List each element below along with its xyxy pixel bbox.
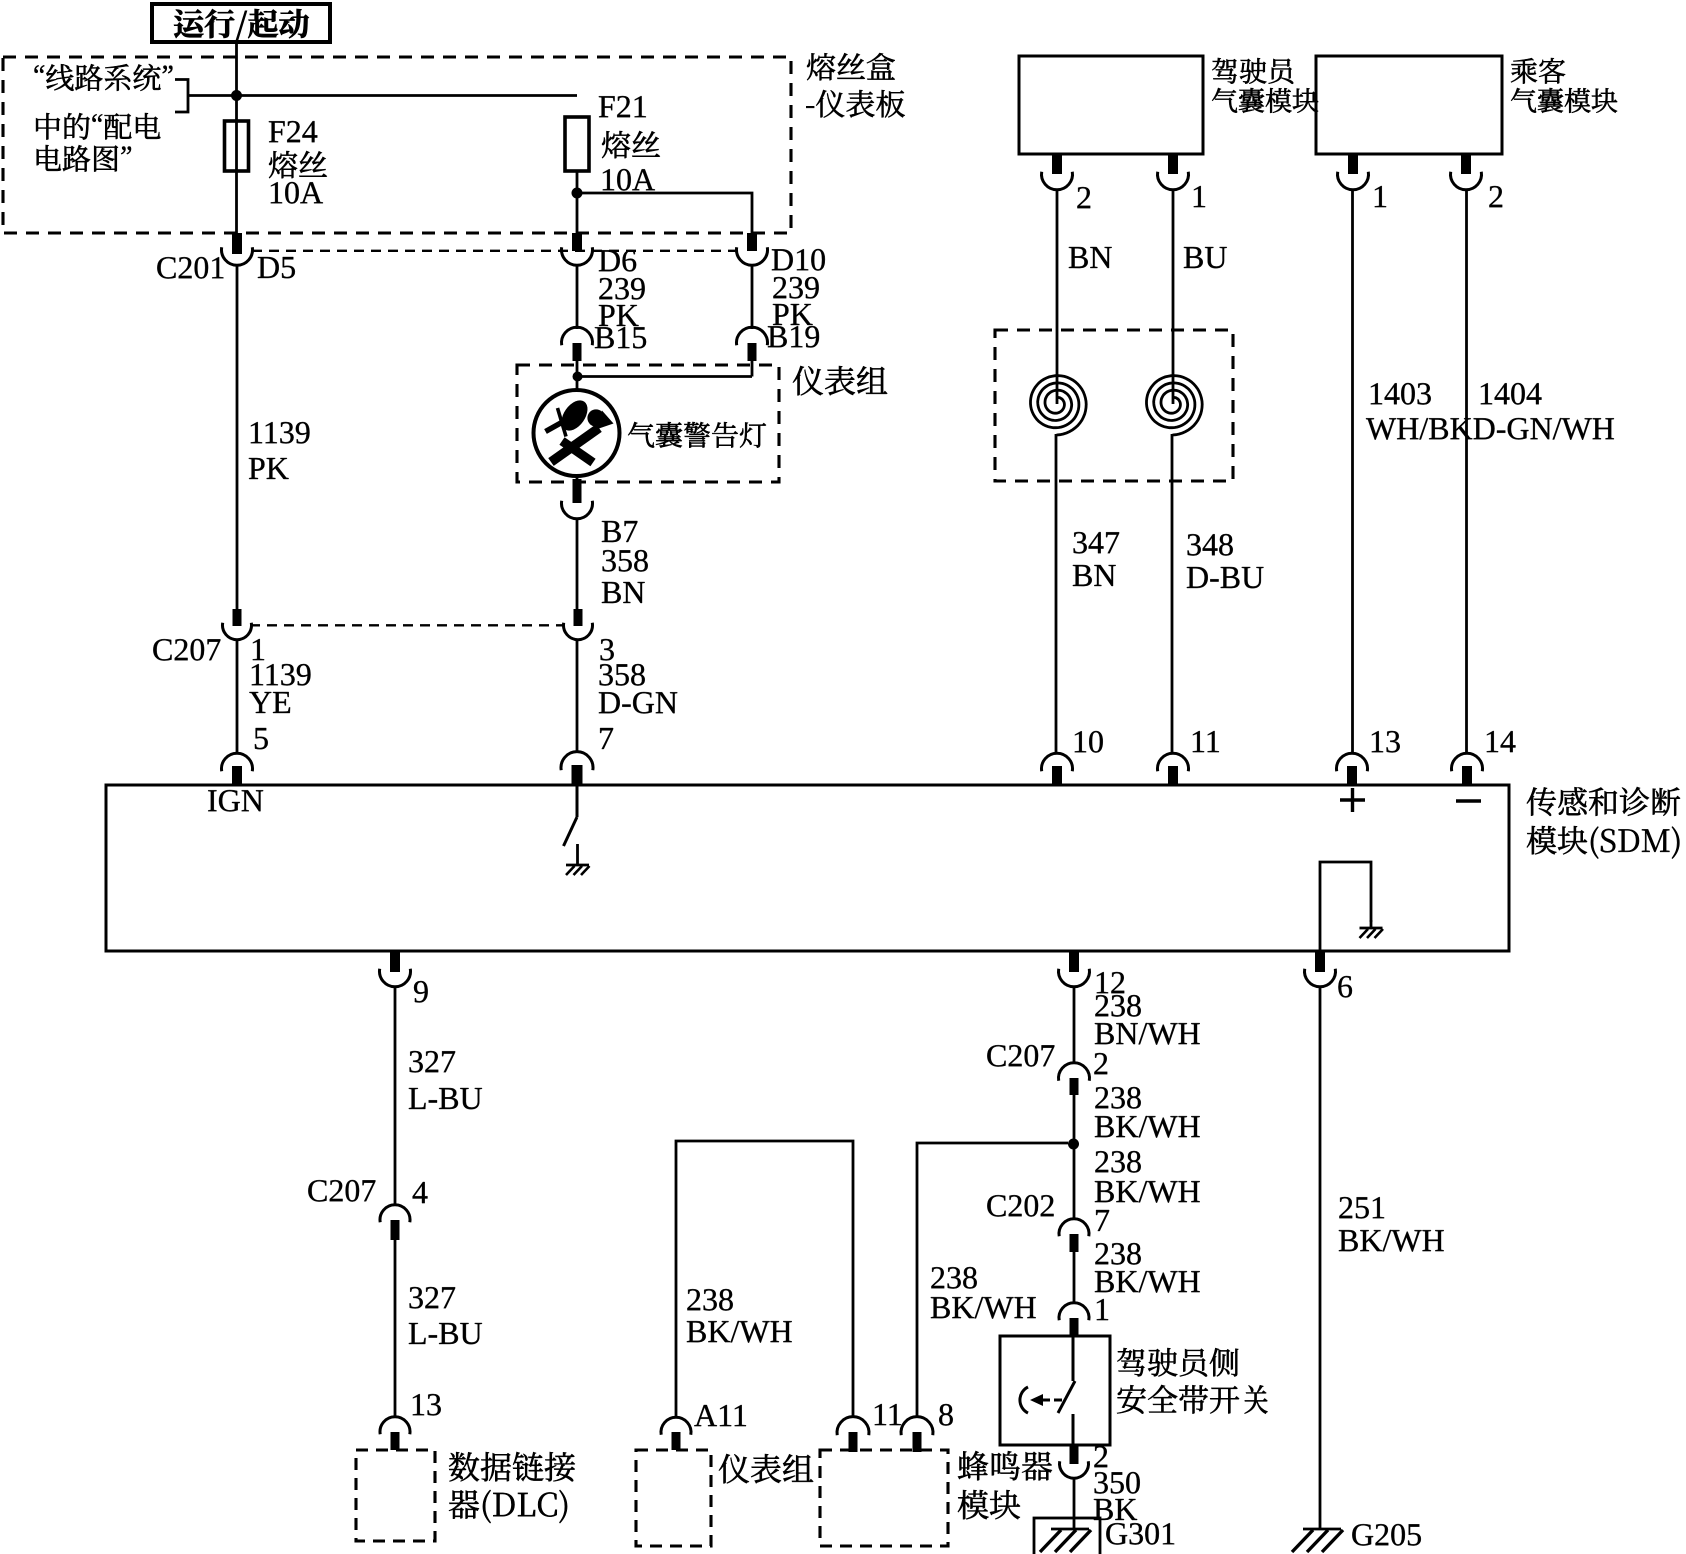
label 347 <box>1074 532 1120 554</box>
wire C207-1 to SDM pin5 <box>236 640 239 755</box>
label 358 (C207-3) <box>600 664 645 686</box>
connector pin B19 terminal <box>737 327 768 345</box>
connector pin D10 terminal <box>747 233 757 251</box>
SDM internal ground loop <box>1320 862 1371 951</box>
driver module pin 2 terminal <box>1052 155 1062 174</box>
label BK <box>1094 1499 1137 1520</box>
passenger module pin 2 terminal <box>1461 155 1471 174</box>
clockspring coil left <box>1031 376 1087 435</box>
ground G205 symbol <box>1303 1528 1341 1531</box>
passenger airbag module box <box>1316 56 1502 154</box>
label 13 (DLC pin) <box>413 1394 441 1416</box>
label 238 (above switch) <box>1095 1243 1140 1265</box>
wire C207-3 to SDM pin7 <box>576 640 579 753</box>
wire C202-7 to switch pin1 <box>1073 1252 1076 1303</box>
node junction dot belt/buzzer <box>1068 1139 1079 1150</box>
label 乘客 <box>1511 58 1565 84</box>
wire buzzer 8 branch <box>917 1143 1068 1417</box>
SDM internal ground (switch) <box>576 844 579 865</box>
SDM internal lamp-driver switch <box>576 785 579 817</box>
power feed box 运行/起动 (Run/Start) <box>152 4 330 42</box>
label 1 (passenger pin) <box>1375 186 1386 207</box>
wire cluster A11 to buzzer 11 <box>676 1141 853 1417</box>
wire B7 to C207-3 <box>576 519 579 611</box>
label B15 <box>595 327 646 348</box>
label D-GN <box>599 692 677 714</box>
label C202 <box>987 1195 1053 1217</box>
wire F21 down to D6 <box>576 171 579 233</box>
label BU (driver) <box>1184 247 1227 268</box>
label 7 (SDM pin) <box>600 728 613 749</box>
label 239 (D6) <box>599 278 644 300</box>
wire driver pin1 down <box>1172 190 1175 404</box>
label 238 (above C202) <box>1095 1151 1140 1173</box>
label 327 (upper) <box>410 1051 456 1073</box>
label BN (347) <box>1073 565 1116 586</box>
note text line3 电路图 <box>37 145 131 172</box>
SDM pin 11 terminal <box>1158 753 1189 771</box>
label 239 (D10) <box>773 277 818 299</box>
connector pin 8 buzzer terminal <box>901 1417 933 1436</box>
label BK/WH (pin8 wire) <box>931 1297 1036 1319</box>
driver seat belt switch box <box>1000 1336 1110 1445</box>
label C207 (row1) <box>153 639 220 661</box>
label 238 (pin12) <box>1095 995 1140 1017</box>
wire Run/Start box to F24 <box>235 42 238 233</box>
label 358 (B7) <box>603 550 648 572</box>
connector C207 pin 1 terminal <box>233 609 242 626</box>
airbag lamp icon <box>556 396 593 436</box>
label G301 <box>1106 1523 1174 1545</box>
label 器(DLC) <box>449 1490 567 1523</box>
label D5 <box>258 257 295 278</box>
label 251 <box>1339 1197 1384 1219</box>
buzzer module dashed box <box>820 1450 948 1546</box>
fuse F21 <box>565 117 589 171</box>
connector C201 dashed line <box>252 250 737 252</box>
label 1139 (upper) <box>251 422 310 444</box>
label 仪表组 (cluster top) <box>793 366 887 395</box>
wire F21 branch to D10 <box>577 193 752 233</box>
label 运行/起动 <box>174 9 309 41</box>
label WH/BKD-GN/WH <box>1366 418 1614 440</box>
label 7 (C202) <box>1096 1210 1109 1231</box>
label 气囊警告灯 <box>628 422 766 448</box>
label 1404 <box>1481 383 1542 405</box>
driver airbag module box <box>1019 56 1203 154</box>
label F21 <box>599 96 646 117</box>
label F24 <box>269 121 317 142</box>
SDM pin 5 terminal <box>221 753 252 771</box>
label 348 <box>1188 534 1233 556</box>
wire C207-4 to DLC <box>394 1240 397 1417</box>
label 1403 <box>1371 383 1431 405</box>
SDM pin 7 terminal <box>561 752 593 771</box>
label minus (pin14) <box>1456 799 1481 802</box>
note text 线路系统 line1 <box>35 64 173 91</box>
instrument cluster bottom dashed box <box>636 1450 711 1546</box>
label D-BU <box>1187 567 1264 588</box>
label 238 (pin8 wire) <box>931 1267 976 1289</box>
label L-BU (lower) <box>409 1323 482 1344</box>
label 11 <box>1193 731 1219 752</box>
connector pin 11 buzzer terminal <box>837 1417 869 1436</box>
fuse box - instrument panel dashed enclosure <box>3 57 791 233</box>
label 238 (below C207-2) <box>1095 1087 1140 1109</box>
wire D10 to B19 <box>751 266 754 330</box>
instrument cluster dashed box <box>517 365 779 482</box>
label 11 (buzzer) <box>875 1404 901 1425</box>
label B19 <box>768 326 819 348</box>
SDM pin 12 terminal <box>1069 952 1079 972</box>
clockspring coil right <box>1147 376 1203 435</box>
label 1139 (lower) <box>252 664 311 686</box>
label 1 (switch pin) <box>1097 1299 1108 1320</box>
label 2 (switch pin) <box>1094 1446 1107 1467</box>
label + (pin13) <box>1340 798 1365 801</box>
wire C207-2 to junction <box>1073 1095 1076 1143</box>
connector C201 pin D5 terminal <box>232 233 242 254</box>
wire passenger pin2 to SDM 14 <box>1465 190 1468 754</box>
connector pin 1 switch terminal <box>1059 1303 1089 1320</box>
label 1 (C207) <box>253 639 264 660</box>
fuse F24 <box>225 121 249 171</box>
label BK/WH (251) <box>1339 1230 1444 1252</box>
label 327 (lower) <box>410 1287 456 1309</box>
label 气囊模块 (passenger) <box>1511 88 1617 113</box>
connector pin D6 terminal <box>572 233 582 251</box>
label IGN <box>208 790 263 812</box>
wire feed bus to F21 <box>187 94 577 97</box>
wire switch to G301 <box>1073 1478 1076 1530</box>
SDM pin 13 terminal <box>1337 753 1368 771</box>
label 8 (buzzer) <box>939 1404 953 1426</box>
label 6 <box>1338 976 1352 998</box>
SDM module box 传感和诊断模块 <box>106 785 1509 951</box>
node B junction below F21 <box>572 188 583 199</box>
connector C207 dashed line <box>250 624 565 626</box>
ground G301 box <box>1034 1518 1100 1554</box>
label BK/WH (below C207-2) <box>1095 1116 1200 1138</box>
connector C207 pin 3 terminal <box>574 609 583 626</box>
label 4 <box>413 1182 428 1203</box>
label PK (D6) <box>599 305 639 326</box>
label C207 (belt chain) <box>987 1045 1054 1067</box>
connector C207 pin 2 terminal <box>1059 1063 1090 1081</box>
label 模块 (buzzer) <box>958 1490 1020 1519</box>
label 驾驶员 <box>1212 58 1293 84</box>
label 10A (F24) <box>271 182 323 204</box>
wire driver pin2 to clockspring <box>1056 190 1059 404</box>
SDM internal ground symbol <box>1370 920 1373 928</box>
label 3 (C207) <box>601 639 614 661</box>
wire pin9 to C207-4 <box>394 987 397 1205</box>
SDM pin 10 terminal <box>1042 753 1073 771</box>
label L-BU (upper) <box>409 1088 482 1109</box>
label BN (B7) <box>602 582 645 603</box>
label 蜂鸣器 <box>958 1451 1052 1480</box>
label BK/WH (above switch) <box>1095 1271 1200 1293</box>
SDM pin 6 terminal <box>1315 952 1325 972</box>
label 14 <box>1487 731 1516 752</box>
label 2 (C207) <box>1094 1053 1107 1074</box>
label 1 (driver pin) <box>1194 186 1205 207</box>
bracket to distribution-diagram note <box>175 80 188 113</box>
note text line2 中的配电 <box>36 113 160 140</box>
label PK (D10) <box>773 304 813 325</box>
wire clockspring left to SDM 10 <box>1055 434 1058 754</box>
wire passenger pin1 to SDM 13 <box>1351 190 1354 754</box>
label D6 <box>599 250 636 272</box>
connector pin A11 terminal <box>661 1417 691 1434</box>
DLC dashed box <box>356 1450 435 1541</box>
label 熔丝 (F24) <box>269 151 327 178</box>
label BN/WH <box>1095 1023 1200 1045</box>
label 13 <box>1372 731 1400 753</box>
label 熔丝 (F21) <box>602 131 660 158</box>
label 仪表组 (bottom) <box>719 1454 813 1483</box>
node A junction dot at feed split <box>231 90 242 101</box>
label 驾驶员侧 <box>1117 1348 1238 1377</box>
label C201 <box>157 257 223 279</box>
label 350 <box>1095 1472 1140 1494</box>
label G205 <box>1352 1524 1421 1546</box>
label 气囊模块 (driver) <box>1212 88 1318 113</box>
wire D6 to B15 <box>576 266 579 330</box>
ground G301 symbol <box>1051 1528 1089 1531</box>
label PK (wire 1139) <box>249 458 289 479</box>
label 数据链接 <box>449 1452 575 1482</box>
label YE <box>249 692 290 713</box>
wire junction to C202-7 <box>1073 1144 1076 1219</box>
label -仪表板 <box>806 90 905 118</box>
connector pin B15 terminal <box>562 327 593 345</box>
connector C202 pin 7 terminal <box>1059 1219 1089 1236</box>
label 2 (driver pin) <box>1077 187 1090 208</box>
wire pin12 to C207-2 <box>1073 987 1076 1064</box>
label BK/WH (A11 wire) <box>687 1321 792 1343</box>
wire clockspring right to SDM 11 <box>1171 434 1174 754</box>
connector pin B7 terminal <box>573 479 582 503</box>
clockspring dashed box <box>995 330 1233 481</box>
label 238 (A11 wire) <box>687 1289 732 1311</box>
wire junction to B19 stub <box>577 375 752 378</box>
label 安全带开关 <box>1117 1385 1267 1414</box>
label C207 (DLC chain) <box>308 1180 375 1202</box>
wire pin6 to G205 <box>1319 987 1322 1530</box>
label BN (driver) <box>1069 247 1112 268</box>
label D10 <box>772 249 825 271</box>
label A11 <box>694 1405 746 1426</box>
label 传感和诊断 <box>1527 787 1680 816</box>
airbag warning lamp circle 气囊警告灯 <box>534 390 620 476</box>
connector pin 2 switch terminal <box>1070 1446 1079 1464</box>
SDM pin 14 terminal <box>1452 753 1483 771</box>
wire B15 into cluster <box>576 361 579 391</box>
wire D5 to C207-1 <box>236 266 239 611</box>
label 9 <box>414 981 428 1003</box>
driver module pin 1 terminal <box>1168 155 1178 174</box>
label 10A (F21) <box>603 169 655 191</box>
SDM pin 9 terminal <box>390 952 400 972</box>
label 5 (SDM pin) <box>255 728 268 749</box>
node junction dot inside cluster <box>573 372 583 382</box>
label 熔丝盒 <box>807 53 895 80</box>
connector pin 13 DLC terminal <box>380 1417 410 1434</box>
label BK/WH (above C202) <box>1095 1181 1200 1203</box>
seat belt switch symbol <box>1072 1336 1075 1381</box>
label 10 <box>1075 731 1103 753</box>
label B7 <box>602 521 638 542</box>
wire lamp to B7 pin <box>576 476 579 483</box>
connector C207 pin 4 terminal <box>380 1205 410 1222</box>
label 2 (passenger pin) <box>1489 186 1502 207</box>
label 模块(SDM) <box>1527 826 1680 859</box>
passenger module pin 1 terminal <box>1348 155 1358 174</box>
label 12 <box>1097 972 1124 993</box>
